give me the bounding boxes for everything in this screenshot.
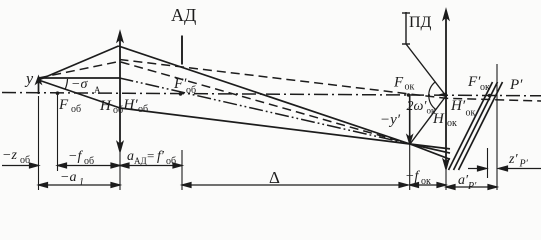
field stop PD symbol (402, 12, 410, 44)
svg-text:−f: −f (405, 169, 420, 184)
image arrow -y' (407, 96, 413, 144)
svg-text:об: об (186, 85, 196, 96)
svg-text:Δ: Δ (269, 168, 280, 187)
svg-text:H: H (99, 98, 112, 114)
wire chief ray image to eyepiece centre (410, 96, 446, 144)
svg-text:F: F (393, 75, 404, 91)
wire ray S1 tip to objective top (39, 46, 119, 80)
svg-text:1: 1 (79, 177, 84, 188)
objective lens U1 double arrow (117, 31, 123, 153)
wire ray S3' to image (120, 108, 410, 144)
node F_ok dot (407, 93, 411, 97)
dim -f_ob (58, 165, 121, 167)
svg-text:АД: АД (171, 5, 196, 25)
svg-text:АД: АД (134, 156, 147, 166)
svg-text:z′: z′ (508, 152, 518, 167)
svg-text:об: об (71, 104, 81, 115)
wire outgoing bundle ray 1 (449, 82, 493, 170)
wire ray image to eyepiece middle (410, 144, 450, 153)
svg-text:−z: −z (2, 148, 17, 163)
wire ray image to eyepiece lower (410, 144, 450, 159)
dim a_AD = f'_ob (120, 165, 182, 167)
node F_ob dot (56, 91, 60, 95)
extension lines (39, 64, 498, 190)
svg-text:об: об (20, 155, 30, 166)
node F'_ok dot (488, 94, 492, 98)
svg-text:=: = (147, 148, 154, 163)
svg-text:P′: P′ (467, 181, 477, 192)
svg-text:об: об (113, 105, 123, 116)
dim -f_ok (410, 184, 447, 186)
svg-text:ок: ок (421, 176, 431, 187)
svg-text:−y′: −y′ (380, 112, 401, 128)
angle arc sigma (65, 79, 68, 90)
svg-text:ок: ок (466, 108, 476, 119)
dim a'_P' (446, 186, 497, 188)
dim z'_P' (468, 168, 478, 170)
wire outgoing bundle ray 3 (459, 82, 503, 170)
dim -z_ob (2, 165, 31, 167)
svg-text:ок: ок (405, 82, 415, 93)
wire ray S2 horizontal from tip (39, 77, 120, 79)
object arrow y (36, 76, 42, 94)
svg-text:об: об (138, 104, 148, 115)
wire upper chief ray from field stop (406, 44, 446, 96)
wire outgoing bundle ray 2 (454, 82, 498, 170)
wire dashed ray D2 tip bundle (39, 62, 411, 145)
svg-text:2ω′: 2ω′ (407, 99, 428, 114)
eyepiece lens U2 double arrow (443, 9, 449, 170)
svg-text:−σ: −σ (71, 77, 88, 92)
wire ray S3 tip downward to lens (39, 80, 121, 108)
svg-text:P′: P′ (509, 77, 523, 93)
svg-text:−a: −a (60, 170, 76, 185)
wire ray image to eyepiece upper (410, 144, 450, 149)
svg-text:H: H (432, 111, 445, 127)
svg-text:P′: P′ (519, 159, 529, 170)
svg-text:ок: ок (447, 118, 457, 129)
svg-text:ок: ок (480, 82, 490, 93)
dimension row B (39, 183, 498, 190)
svg-text:F: F (58, 97, 69, 113)
svg-text:об: об (166, 156, 176, 167)
wire ray S2' dash-dot-dot to image (120, 78, 411, 144)
svg-text:−f: −f (68, 149, 83, 164)
svg-text:ПД: ПД (409, 14, 432, 31)
arrowhead at eyepiece centre (438, 92, 448, 97)
node F'_ob dot (179, 92, 183, 96)
svg-text:H′: H′ (450, 98, 466, 114)
dim -a_1 (39, 184, 121, 186)
wire dashed ray D1 chief through stop edge (120, 60, 541, 102)
optical axis (2, 93, 541, 96)
svg-text:y: y (24, 71, 34, 88)
angle arc 2w'ok (429, 82, 436, 110)
svg-text:А: А (94, 85, 101, 95)
aperture stop AD line (181, 36, 183, 65)
dimension row A (2, 163, 541, 171)
svg-text:a: a (127, 149, 134, 164)
dim Delta (182, 184, 408, 186)
svg-text:об: об (84, 156, 94, 167)
wire ray S1' objective top to image (119, 46, 411, 144)
svg-text:H′: H′ (123, 97, 139, 113)
svg-text:f′: f′ (157, 149, 165, 164)
